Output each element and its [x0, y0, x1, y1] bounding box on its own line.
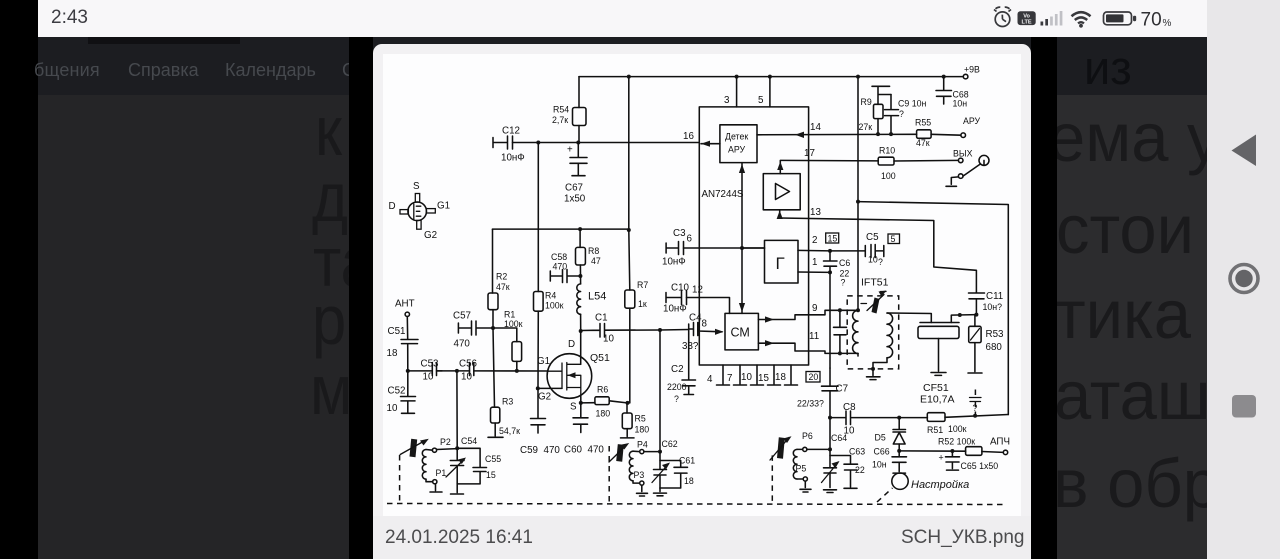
- resistor R2: [488, 293, 498, 310]
- wire L54 to drain node: [580, 314, 582, 331]
- svg-text:R8: R8: [588, 246, 599, 256]
- varicap tuning arrow input circuit: [410, 439, 418, 457]
- node dot feedback/pin6: [740, 246, 744, 250]
- svg-text:G2: G2: [424, 230, 437, 241]
- legend G2 tab: [417, 220, 421, 229]
- detector AGC block: [720, 125, 757, 163]
- capacitor C53: [432, 363, 442, 376]
- svg-text:C1: C1: [595, 313, 608, 324]
- wire amp top to pin17 line: [779, 161, 781, 174]
- svg-text:C51: C51: [388, 326, 406, 337]
- terminal AFC: [1003, 450, 1007, 454]
- varicap diode D5: [893, 418, 906, 432]
- node dot crystal/R53 wire: [958, 313, 962, 317]
- nav recents square: [1232, 395, 1256, 418]
- svg-text:15: 15: [758, 373, 769, 384]
- svg-text:G1: G1: [437, 201, 450, 212]
- svg-text:17: 17: [804, 148, 815, 159]
- tuning knob symbol: [892, 473, 908, 489]
- svg-text:Р4: Р4: [637, 440, 648, 450]
- jack symbol: [979, 155, 989, 165]
- svg-text:10: 10: [741, 372, 752, 383]
- capacitor C10: [666, 291, 687, 305]
- op-amp U1 AN7244S IC body: [699, 107, 808, 365]
- svg-text:54,7к: 54,7к: [499, 426, 520, 436]
- wire coil P3-P4: [633, 451, 640, 483]
- svg-text:C65 1x50: C65 1x50: [961, 461, 999, 471]
- svg-text:C61: C61: [679, 456, 695, 466]
- svg-text:+: +: [567, 145, 573, 156]
- node dot antenna/G1 line: [406, 369, 410, 373]
- svg-text:R2: R2: [496, 272, 507, 282]
- svg-text:ВЫХ: ВЫХ: [953, 149, 973, 159]
- svg-text:Е10,7А: Е10,7А: [920, 394, 954, 406]
- resistor R54: [573, 108, 587, 126]
- svg-text:R3: R3: [502, 397, 513, 407]
- arrowhead into detector block: [795, 132, 804, 138]
- crystal filter CF51: [920, 322, 959, 324]
- svg-text:14: 14: [810, 122, 821, 133]
- capacitor C60: [573, 403, 588, 433]
- IC bottom ground pin 7: [734, 365, 747, 385]
- wire pin8 C4 into mixer: [698, 329, 722, 332]
- node dot C7/AFC line: [828, 416, 832, 420]
- resistor R8: [579, 229, 581, 247]
- wire Q51 source down: [580, 397, 582, 403]
- ground stub R53: [968, 343, 982, 373]
- capacitor C63: [830, 456, 858, 489]
- transistor Q51 body: [547, 354, 592, 399]
- node dot second rail/R7 column: [627, 228, 631, 232]
- svg-text:47к: 47к: [496, 282, 510, 292]
- node dot drain/C1: [579, 329, 583, 333]
- ground jack sleeve: [946, 177, 958, 186]
- wire drain node into Q51: [580, 331, 582, 364]
- node dot R2/C57/R1/R3: [491, 326, 495, 330]
- browser menu band: [38, 37, 1207, 95]
- resistor R10: [878, 157, 894, 165]
- svg-text:?: ?: [674, 394, 679, 404]
- svg-text:Настройка: Настройка: [911, 479, 969, 491]
- wire R51 to right loop: [945, 415, 1008, 418]
- wire R7 top: [629, 230, 630, 290]
- legend D tab: [400, 210, 408, 214]
- resistor R51: [899, 417, 927, 419]
- node dot supply joins primary top: [856, 308, 860, 312]
- svg-text:10: 10: [868, 255, 878, 265]
- svg-text:10нФ: 10нФ: [501, 153, 525, 164]
- svg-text:Детек: Детек: [725, 132, 748, 142]
- svg-text:R51: R51: [927, 425, 943, 435]
- svg-text:R6: R6: [597, 385, 608, 395]
- svg-text:G1: G1: [537, 356, 550, 367]
- svg-text:C52: C52: [388, 386, 406, 397]
- nav back triangle: [1232, 135, 1257, 167]
- svg-text:Q51: Q51: [590, 352, 610, 364]
- caption bar: [373, 516, 1031, 559]
- dashed vertical third section: [771, 455, 773, 503]
- status VoLTE badge: [1018, 11, 1036, 25]
- transformer IFT51 dashed box: [847, 296, 899, 369]
- svg-text:D5: D5: [875, 433, 886, 443]
- wire IC pin13 to C11 branch: [780, 218, 977, 293]
- trimmer capacitor C64 variable: [824, 449, 837, 487]
- capacitor C55: [457, 448, 486, 484]
- svg-text:Р6: Р6: [802, 431, 813, 441]
- legend G1 tab: [426, 209, 435, 213]
- amplifier block with triangle: [763, 174, 800, 210]
- transistor pinout legend body: [408, 202, 427, 221]
- wire coil P5-P6: [797, 449, 803, 479]
- svg-text:2: 2: [812, 235, 817, 246]
- node dot dashed-cap/loop: [973, 414, 977, 418]
- wire R54 bottom to AGC line: [578, 126, 580, 143]
- status wifi icon: [1072, 12, 1091, 23]
- wire secondary bottom to center tap: [858, 354, 887, 369]
- ground C64: [824, 490, 837, 493]
- svg-text:R7: R7: [637, 280, 648, 290]
- svg-text:22/33?: 22/33?: [797, 399, 824, 409]
- wire IC pin2: [798, 249, 830, 252]
- svg-text:470: 470: [553, 262, 568, 272]
- svg-text:10: 10: [423, 372, 434, 383]
- wire detector out to pin16: [701, 143, 720, 145]
- svg-text:АПЧ: АПЧ: [990, 437, 1010, 448]
- svg-text:100к: 100к: [545, 301, 564, 311]
- svg-text:Р2: Р2: [440, 437, 451, 447]
- svg-text:10н?: 10н?: [983, 302, 1003, 312]
- svg-text:?: ?: [899, 109, 904, 119]
- svg-text:Г: Г: [776, 254, 785, 273]
- ground P5: [800, 481, 811, 492]
- wire IC pin14 AGC out line: [757, 133, 917, 136]
- svg-text:АРУ: АРУ: [728, 145, 746, 155]
- svg-text:G2: G2: [538, 392, 551, 403]
- node dot pin1/C6: [828, 270, 832, 274]
- capacitor C5: [830, 245, 884, 258]
- IC bottom ground pin 4: [717, 365, 730, 385]
- svg-text:C4: C4: [689, 313, 702, 324]
- capacitor C7: [822, 368, 839, 418]
- svg-text:12: 12: [692, 285, 703, 296]
- resistor R52: [966, 447, 982, 456]
- capacitor C3: [666, 242, 683, 255]
- svg-text:IFT51: IFT51: [861, 277, 889, 289]
- IC bottom ground pin 18: [785, 365, 798, 385]
- wire second rail corner down to R2: [492, 229, 494, 293]
- node dot AGC/C-vertical: [536, 141, 540, 145]
- node dot C1/C62 column: [658, 328, 662, 332]
- wire C62 column: [659, 330, 661, 452]
- wire vertical rail down to mixer transformer supply: [857, 77, 859, 311]
- svg-text:C53: C53: [421, 359, 440, 370]
- wire R8 to L54: [579, 265, 581, 284]
- svg-text:70: 70: [1141, 9, 1162, 30]
- wire second rail: [493, 228, 629, 230]
- node dot cap bottom pin11: [838, 351, 842, 355]
- terminal P1: [433, 480, 437, 484]
- black viewer scrim bands flanking the image panel: [349, 37, 373, 559]
- svg-text:S: S: [570, 402, 577, 413]
- node dot rail/pin3 stub: [735, 75, 739, 79]
- svg-text:R4: R4: [545, 291, 556, 301]
- svg-text:C59: C59: [520, 445, 538, 456]
- ground stub R3: [488, 423, 503, 437]
- wire C64 column: [829, 418, 831, 450]
- wire R7 bottom long vertical to R6 node: [629, 308, 631, 403]
- node dot AGC/C67: [576, 141, 580, 145]
- svg-text:10: 10: [603, 334, 614, 345]
- wire G2 to C59 node: [537, 387, 562, 389]
- wire mixer out pin9: [758, 310, 858, 319]
- pin 5 stub: [769, 77, 771, 107]
- inductor IFT51 secondary: [887, 313, 893, 358]
- wire crystal out to R53 node: [951, 315, 976, 323]
- node dot rail/R54 branch: [627, 75, 631, 79]
- status bar: [38, 0, 1207, 37]
- terminal ARU: [961, 133, 966, 138]
- svg-text:22: 22: [855, 465, 865, 475]
- resistor R7: [625, 290, 635, 308]
- trimmer capacitor C54: [450, 371, 464, 484]
- svg-text:C10: C10: [671, 283, 690, 294]
- svg-text:R54: R54: [553, 105, 569, 115]
- wire P4 to C62 node: [644, 451, 660, 453]
- IC bottom ground pin 10: [751, 365, 764, 385]
- svg-text:C67: C67: [565, 183, 583, 194]
- varicap tuning arrow second circuit: [616, 444, 624, 462]
- wire pin6 C3 to oscillator: [684, 247, 765, 249]
- capacitor C61 fixed: [660, 461, 688, 489]
- oscillator block G: [765, 240, 799, 283]
- capacitor C56: [470, 363, 474, 376]
- terminal P2: [432, 448, 436, 452]
- node dot cap top pin9: [838, 308, 842, 312]
- svg-text:C56: C56: [459, 359, 478, 370]
- node dot D5/C66: [897, 449, 901, 453]
- terminal +9V: [963, 74, 968, 79]
- inductor IFT51 primary: [853, 310, 858, 353]
- terminal P4: [640, 450, 644, 454]
- svg-text:АРУ: АРУ: [963, 116, 981, 126]
- node dot R1/G1: [515, 369, 519, 373]
- Q51 internals dual-gate MOSFET: [548, 363, 581, 397]
- svg-text:470: 470: [454, 339, 471, 350]
- node dot source: [579, 401, 583, 405]
- svg-text:C62: C62: [662, 439, 678, 449]
- svg-text:1к: 1к: [638, 299, 647, 309]
- resistor R1: [493, 328, 517, 342]
- svg-text:C8: C8: [843, 402, 856, 413]
- capacitor C11: [969, 293, 985, 315]
- ground P1: [430, 484, 442, 492]
- capacitor C4: [689, 323, 698, 336]
- boxed pin label 15: [826, 233, 839, 243]
- node dot R6/R7/R5: [626, 401, 630, 405]
- wire amp bottom to pin13 line: [779, 210, 781, 218]
- node dot pin14/R9: [876, 132, 880, 136]
- wire rail corner down to R54: [578, 77, 580, 108]
- svg-text:100к: 100к: [948, 424, 967, 434]
- svg-text:4: 4: [707, 374, 713, 385]
- node dot pin2/C6: [828, 249, 832, 253]
- wire R55 to AGC terminal: [931, 133, 961, 136]
- wire feedback vertical detector-mixer: [741, 163, 743, 314]
- capacitor C68: [936, 77, 952, 104]
- big dimmed article text, left column fragments: [315, 96, 342, 166]
- svg-text:470: 470: [588, 445, 605, 456]
- node dot C65: [950, 449, 954, 453]
- svg-text:+9В: +9В: [964, 65, 980, 75]
- wire R4 bottom to G2 node: [537, 311, 539, 388]
- pin 3 stub: [736, 77, 738, 107]
- node dot C64: [828, 447, 832, 451]
- svg-text:15: 15: [486, 470, 496, 480]
- capacitor C1: [581, 324, 660, 338]
- svg-text:47: 47: [591, 256, 601, 266]
- node dot pin14/C9: [889, 132, 893, 136]
- svg-text:180: 180: [635, 425, 650, 435]
- svg-text:%: %: [1163, 18, 1172, 29]
- node dot AFC/D5: [897, 416, 901, 420]
- svg-text:18: 18: [684, 476, 694, 486]
- svg-text:10: 10: [844, 426, 855, 437]
- svg-text:D: D: [389, 201, 396, 212]
- svg-text:1x50: 1x50: [564, 194, 586, 205]
- svg-text:C66: C66: [874, 447, 890, 457]
- svg-text:180: 180: [596, 409, 611, 419]
- wire secondary top to crystal: [887, 313, 931, 323]
- svg-text:Р5: Р5: [796, 464, 807, 474]
- left black edge: [0, 0, 38, 559]
- svg-text:1: 1: [812, 257, 817, 268]
- dashed vertical second section: [608, 446, 610, 503]
- wire pin12 C10 into mixer: [687, 298, 730, 314]
- terminal P6: [803, 447, 807, 451]
- capacitor C65 electrolytic: [946, 451, 960, 470]
- terminal VYH output: [958, 158, 963, 163]
- svg-text:7: 7: [727, 373, 732, 384]
- wire P2 to C54: [437, 448, 458, 451]
- big dimmed article text, right fragments: [1048, 103, 1221, 172]
- svg-text:16: 16: [683, 131, 694, 142]
- ground P3: [637, 485, 648, 496]
- svg-text:18: 18: [775, 372, 786, 383]
- node dot C53-C56/C54: [455, 369, 459, 373]
- wire R2 bottom to AGC node: [492, 310, 494, 328]
- svg-text:R53: R53: [986, 329, 1005, 340]
- ground C61-C62: [654, 488, 667, 496]
- svg-text:11: 11: [809, 331, 819, 342]
- wire AFC output line: [899, 450, 965, 452]
- node dot center tap: [871, 367, 875, 371]
- inductor P3-P4 coil: [629, 451, 633, 481]
- svg-text:2200: 2200: [667, 382, 687, 392]
- svg-text:27к: 27к: [859, 122, 873, 132]
- svg-text:C54: C54: [461, 436, 477, 446]
- node dot C11/R53: [974, 313, 978, 317]
- wire P6 to C64 node: [807, 448, 830, 450]
- svg-text:10н: 10н: [953, 99, 968, 109]
- IC bottom ground pin 15: [768, 365, 781, 385]
- menu text: [34, 60, 100, 81]
- capacitor C12: [493, 136, 513, 149]
- wire vertical C12 node down to second rail: [537, 143, 539, 230]
- svg-text:33?: 33?: [682, 341, 699, 352]
- capacitor across primary: [834, 310, 847, 353]
- wire AGC line C12 to IC pin16: [513, 142, 700, 144]
- svg-text:Vo: Vo: [1023, 13, 1030, 19]
- svg-text:18: 18: [387, 348, 398, 359]
- svg-text:8: 8: [702, 319, 708, 330]
- varicap tuning arrow third circuit: [777, 437, 785, 458]
- boxed pin label 5: [888, 234, 900, 244]
- svg-text:R52 100к: R52 100к: [938, 437, 975, 447]
- svg-text:?: ?: [878, 257, 883, 267]
- image viewer panel: [373, 44, 1031, 559]
- svg-text:С58: С58: [551, 252, 567, 262]
- node dot R8/C58: [578, 274, 582, 278]
- dashed link to tuning knob: [877, 488, 893, 502]
- trimmer capacitor C61 variable: [654, 452, 667, 488]
- terminal P5: [803, 477, 807, 481]
- status battery icon: [1104, 12, 1132, 25]
- svg-text:9: 9: [812, 303, 817, 314]
- resistor R5: [626, 403, 628, 413]
- svg-text:C3: C3: [673, 228, 686, 239]
- node dot C62: [658, 450, 662, 454]
- svg-text:R10: R10: [879, 146, 895, 156]
- nav home circle: [1230, 265, 1258, 293]
- svg-text:C7: C7: [836, 384, 849, 395]
- node dot rail/pin5 stub: [768, 75, 772, 79]
- stray capacitance dashed: [974, 390, 976, 415]
- wire right loop from supply vertical to right edge: [858, 202, 1008, 415]
- capacitor C59: [531, 388, 546, 433]
- svg-text:10н: 10н: [872, 460, 887, 470]
- node dot G2/C59: [536, 386, 540, 390]
- wire G1 line: [408, 370, 548, 372]
- resistor R53: [974, 315, 976, 327]
- svg-text:680: 680: [986, 342, 1003, 353]
- node dot second rail/R8: [578, 227, 582, 231]
- svg-text:15: 15: [828, 234, 838, 244]
- resistor R6: [581, 402, 595, 404]
- svg-text:R5: R5: [635, 414, 646, 424]
- inductor P1-P2 input coil: [422, 450, 426, 480]
- svg-text:10: 10: [387, 403, 398, 414]
- svg-text:Р1: Р1: [436, 468, 447, 478]
- ground C54-C55: [451, 484, 464, 494]
- svg-text:C12: C12: [502, 126, 520, 137]
- svg-text:C63: C63: [849, 447, 865, 457]
- svg-text:+: +: [939, 453, 944, 463]
- capacitor C2: [682, 334, 696, 395]
- resistor R3: [493, 328, 495, 407]
- wire pin1 node down to C7: [829, 272, 831, 368]
- svg-text:C9 10н: C9 10н: [898, 99, 926, 109]
- svg-text:100к: 100к: [504, 319, 523, 329]
- svg-text:C5: C5: [866, 232, 879, 243]
- capacitor C66: [892, 451, 907, 473]
- capacitor C57: [458, 321, 492, 335]
- svg-text:R55: R55: [915, 118, 931, 128]
- status alarm clock icon: [994, 7, 1011, 26]
- svg-text:АНТ: АНТ: [395, 299, 415, 310]
- svg-text:CF51: CF51: [923, 382, 949, 394]
- status signal bars: [1041, 11, 1063, 26]
- svg-text:C57: C57: [453, 311, 471, 322]
